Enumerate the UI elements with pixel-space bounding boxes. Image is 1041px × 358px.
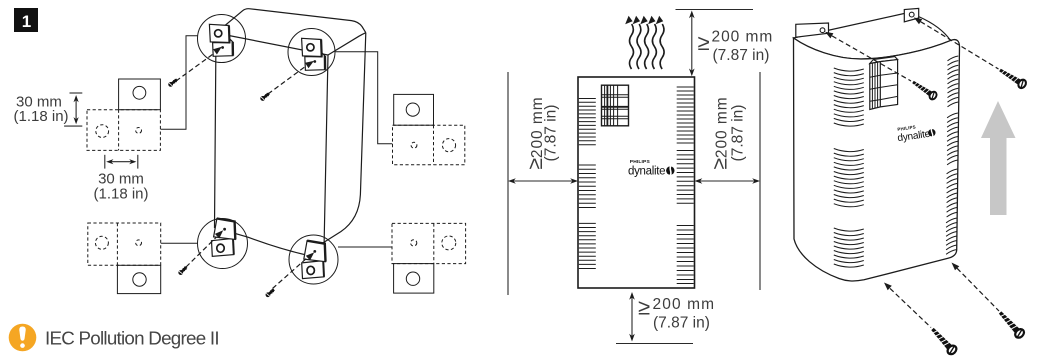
bracket top-right bbox=[302, 38, 326, 70]
svg-text:≥: ≥ bbox=[698, 30, 710, 55]
callout circle bottom-right bbox=[289, 235, 338, 284]
top clearance dimension tick bbox=[676, 9, 754, 11]
top clearance dimension arrow bbox=[691, 13, 693, 74]
terminal block 3d bbox=[870, 57, 898, 110]
lower-right diagram solid square bbox=[394, 264, 434, 294]
leader top-left bbox=[161, 36, 198, 130]
svg-text:PHILIPS: PHILIPS bbox=[630, 159, 651, 165]
svg-text:dynalite: dynalite bbox=[628, 166, 665, 178]
svg-text:≥: ≥ bbox=[638, 295, 650, 320]
device front face bbox=[794, 38, 960, 281]
device front view outline bbox=[578, 77, 695, 288]
right mounting tab bbox=[904, 8, 918, 21]
gray insertion arrow bbox=[981, 101, 1016, 215]
warning icon exclamation mark bbox=[19, 327, 25, 341]
isometric box right face top edge bbox=[328, 33, 366, 55]
right clearance arrow bbox=[697, 180, 758, 182]
isometric box top face bbox=[216, 9, 366, 33]
callout circle bottom-left bbox=[198, 219, 248, 269]
step number badge bbox=[14, 8, 38, 32]
svg-text:(7.87 in): (7.87 in) bbox=[713, 47, 770, 64]
right clearance boundary line bbox=[759, 72, 761, 290]
left clearance arrow bbox=[511, 180, 576, 182]
svg-text:200 mm: 200 mm bbox=[653, 296, 716, 313]
svg-text:IEC Pollution Degree II: IEC Pollution Degree II bbox=[45, 328, 219, 349]
svg-text:≥200 mm: ≥200 mm bbox=[709, 96, 732, 169]
upper-right diagram dashed plate bbox=[393, 125, 465, 165]
screw mid bbox=[911, 79, 938, 101]
bracket bottom-left bbox=[212, 219, 236, 257]
left vent arcs group 1 bbox=[834, 68, 864, 126]
svg-text:(1.18 in): (1.18 in) bbox=[93, 186, 148, 203]
vent slots left column group 3 bbox=[579, 223, 596, 268]
leader top-right bbox=[335, 52, 392, 144]
svg-text:(7.87 in): (7.87 in) bbox=[653, 315, 710, 332]
left vent arcs group 2 bbox=[834, 149, 864, 207]
dynalite cd icon bbox=[666, 166, 674, 174]
lower-left diagram dashed plate bbox=[88, 223, 161, 265]
screw bottom-right bbox=[265, 288, 276, 298]
dashed guide bottom-left bbox=[884, 283, 892, 291]
lower-left diagram solid square bbox=[117, 265, 160, 293]
right vent arcs group 4 bbox=[946, 218, 957, 254]
screw arrow top-left bbox=[176, 53, 215, 81]
isometric box back-right edge with rounded bottom bbox=[322, 33, 366, 244]
dashed guide right tab bbox=[914, 18, 922, 25]
leader bottom-right bbox=[338, 246, 392, 248]
warning icon orange circle bbox=[9, 324, 37, 352]
philips wordmark (right panel) bbox=[896, 122, 937, 144]
bottom clearance tick bbox=[616, 343, 693, 345]
horizontal 30mm dimension bbox=[105, 155, 138, 169]
bottom clearance arrow bbox=[631, 295, 633, 340]
right vent arcs group 2 bbox=[947, 113, 958, 165]
terminal block grid bbox=[602, 85, 629, 126]
left vent arcs group 3 bbox=[834, 228, 864, 267]
device top face bbox=[794, 14, 951, 60]
right vent arcs group 1 bbox=[948, 56, 959, 107]
svg-text:(7.87 in): (7.87 in) bbox=[543, 105, 560, 162]
vertical 30mm dimension bbox=[64, 93, 82, 126]
upper-right diagram solid square bbox=[394, 94, 434, 125]
bracket top-left bbox=[209, 24, 233, 56]
isometric box front face bbox=[215, 33, 329, 259]
screw bottom-left bbox=[929, 326, 958, 356]
lower-right diagram dashed plate bbox=[392, 223, 466, 263]
svg-text:(1.18 in): (1.18 in) bbox=[14, 108, 69, 125]
vent slots right column group 1 bbox=[677, 87, 694, 143]
screw top-right bbox=[998, 66, 1028, 89]
screw arrow top-right bbox=[268, 66, 306, 94]
vent slots left column group 2 bbox=[579, 165, 596, 208]
screw arrow bottom-right bbox=[273, 258, 308, 289]
svg-text:(7.87 in): (7.87 in) bbox=[730, 105, 747, 162]
dashed guide bottom-right bbox=[952, 263, 960, 271]
vent slots right column group 3 bbox=[677, 226, 694, 284]
wavy heat arrow lines bbox=[630, 24, 665, 69]
screw bottom-right bbox=[997, 309, 1026, 339]
wavy arrowheads bbox=[625, 16, 663, 24]
right vent arcs group 3 bbox=[947, 169, 958, 217]
screw top-left bbox=[167, 78, 178, 88]
upper-left diagram dashed plate bbox=[87, 110, 160, 151]
screw bottom-left bbox=[177, 265, 188, 276]
svg-text:1: 1 bbox=[22, 12, 31, 31]
vent slots left column group 1 bbox=[579, 99, 596, 145]
leader bottom-left bbox=[161, 242, 198, 244]
callout circle top-left bbox=[198, 15, 246, 63]
vent slots right column group 2 bbox=[677, 151, 694, 204]
bracket bottom-right bbox=[302, 241, 326, 279]
left mounting tab bbox=[796, 23, 829, 37]
left clearance boundary line bbox=[507, 72, 509, 295]
svg-text:200 mm: 200 mm bbox=[712, 29, 774, 46]
callout circle top-right bbox=[288, 29, 335, 76]
screw arrow bottom-left bbox=[186, 237, 217, 267]
dashed guide left tab bbox=[825, 32, 833, 39]
upper-left diagram solid square bbox=[119, 79, 161, 110]
screw top-right bbox=[259, 92, 270, 102]
